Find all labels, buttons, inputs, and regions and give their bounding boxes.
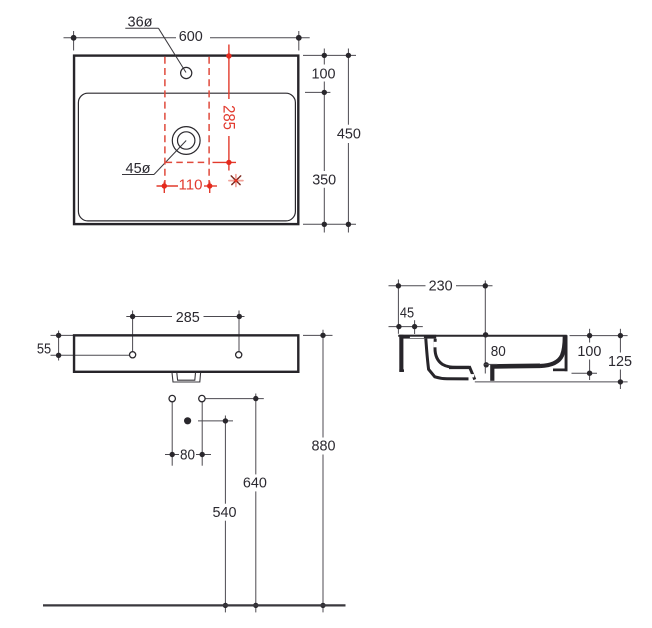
svg-text:285: 285 xyxy=(219,105,237,130)
svg-text:45: 45 xyxy=(400,305,414,322)
svg-text:80: 80 xyxy=(491,343,506,360)
svg-text:125: 125 xyxy=(608,353,632,370)
svg-text:540: 540 xyxy=(213,504,237,521)
svg-text:600: 600 xyxy=(179,28,203,45)
svg-text:80: 80 xyxy=(180,446,195,463)
svg-text:100: 100 xyxy=(312,65,336,82)
svg-text:110: 110 xyxy=(179,176,203,193)
svg-text:45ø: 45ø xyxy=(126,160,151,177)
svg-text:36ø: 36ø xyxy=(128,14,153,31)
svg-text:640: 640 xyxy=(243,475,267,492)
svg-text:55: 55 xyxy=(37,340,51,357)
svg-text:350: 350 xyxy=(312,172,336,189)
svg-text:880: 880 xyxy=(312,438,336,455)
svg-text:450: 450 xyxy=(337,125,361,142)
svg-text:285: 285 xyxy=(176,309,200,326)
svg-text:230: 230 xyxy=(429,278,453,295)
svg-text:100: 100 xyxy=(577,343,601,360)
